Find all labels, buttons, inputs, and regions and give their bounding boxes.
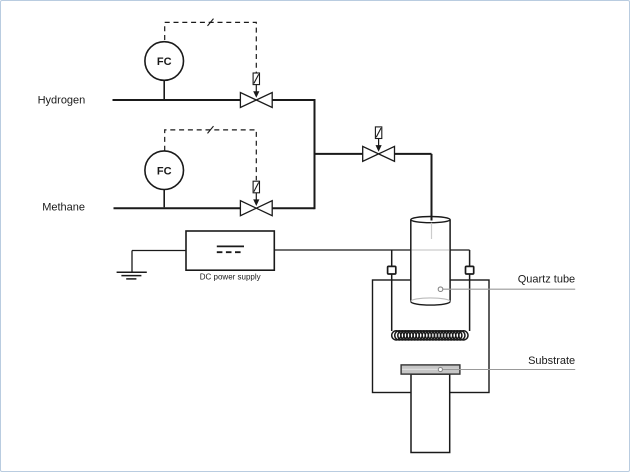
svg-text:Hydrogen: Hydrogen (38, 95, 86, 107)
svg-text:Methane: Methane (42, 201, 85, 213)
svg-text:Quartz tube: Quartz tube (518, 273, 575, 285)
svg-text:DC power supply: DC power supply (200, 273, 261, 282)
svg-text:FC: FC (157, 165, 172, 177)
svg-text:Substrate: Substrate (528, 355, 575, 367)
svg-text:FC: FC (157, 56, 172, 68)
